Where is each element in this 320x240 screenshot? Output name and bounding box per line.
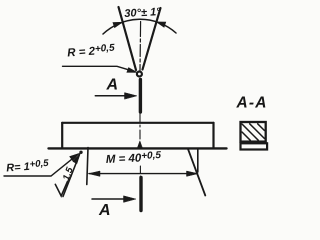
die block top edge xyxy=(62,122,213,124)
svg-text:30°± 1°: 30°± 1° xyxy=(124,6,161,20)
arc left arrowhead xyxy=(113,22,122,27)
leader R=1 arrowhead xyxy=(70,153,80,161)
leader line R=1 xyxy=(4,156,76,176)
svg-text:A: A xyxy=(98,202,111,219)
angular dimension arc 30 deg xyxy=(103,19,176,34)
dimension M=40 line xyxy=(89,173,198,175)
M dim left arrowhead xyxy=(89,171,100,176)
centerline (dash-dot) upper xyxy=(139,22,142,71)
arc right arrowhead xyxy=(156,22,165,27)
M dim right extension line xyxy=(197,149,199,173)
svg-text:A-A: A-A xyxy=(236,95,268,112)
dim 1,5 slanted line xyxy=(63,155,80,197)
right diagonal leader xyxy=(188,149,205,196)
base line xyxy=(49,147,227,149)
centerline (dash-dot) middle xyxy=(139,113,141,147)
section A-A strip bar xyxy=(241,143,268,149)
die block right edge xyxy=(212,123,214,148)
punch left flank line xyxy=(119,7,137,70)
dim 1,5 top arrowhead xyxy=(73,154,80,164)
corner dot xyxy=(79,151,82,154)
section plane trace top (thick) xyxy=(139,80,142,113)
section A-A hatching xyxy=(242,124,264,141)
M dim left extension line xyxy=(87,148,88,185)
center up arrowhead at die bottom xyxy=(137,141,142,148)
section plane trace bottom (thick) xyxy=(139,178,142,211)
section arrow bottom (A) xyxy=(92,198,125,200)
section arrow top (A) xyxy=(95,95,126,97)
centerline (dash-dot) lower xyxy=(139,166,141,178)
svg-text:A: A xyxy=(106,77,119,94)
die block left edge xyxy=(61,123,63,148)
section A-A square outline xyxy=(241,122,266,142)
leader line R=2 xyxy=(63,66,135,71)
punch tip radius circle xyxy=(137,72,142,77)
leader R=2 arrowhead xyxy=(127,68,138,73)
M dim right arrowhead xyxy=(187,171,198,176)
punch right flank line xyxy=(143,8,161,70)
dim 1,5 bottom open arrowhead xyxy=(55,182,67,197)
